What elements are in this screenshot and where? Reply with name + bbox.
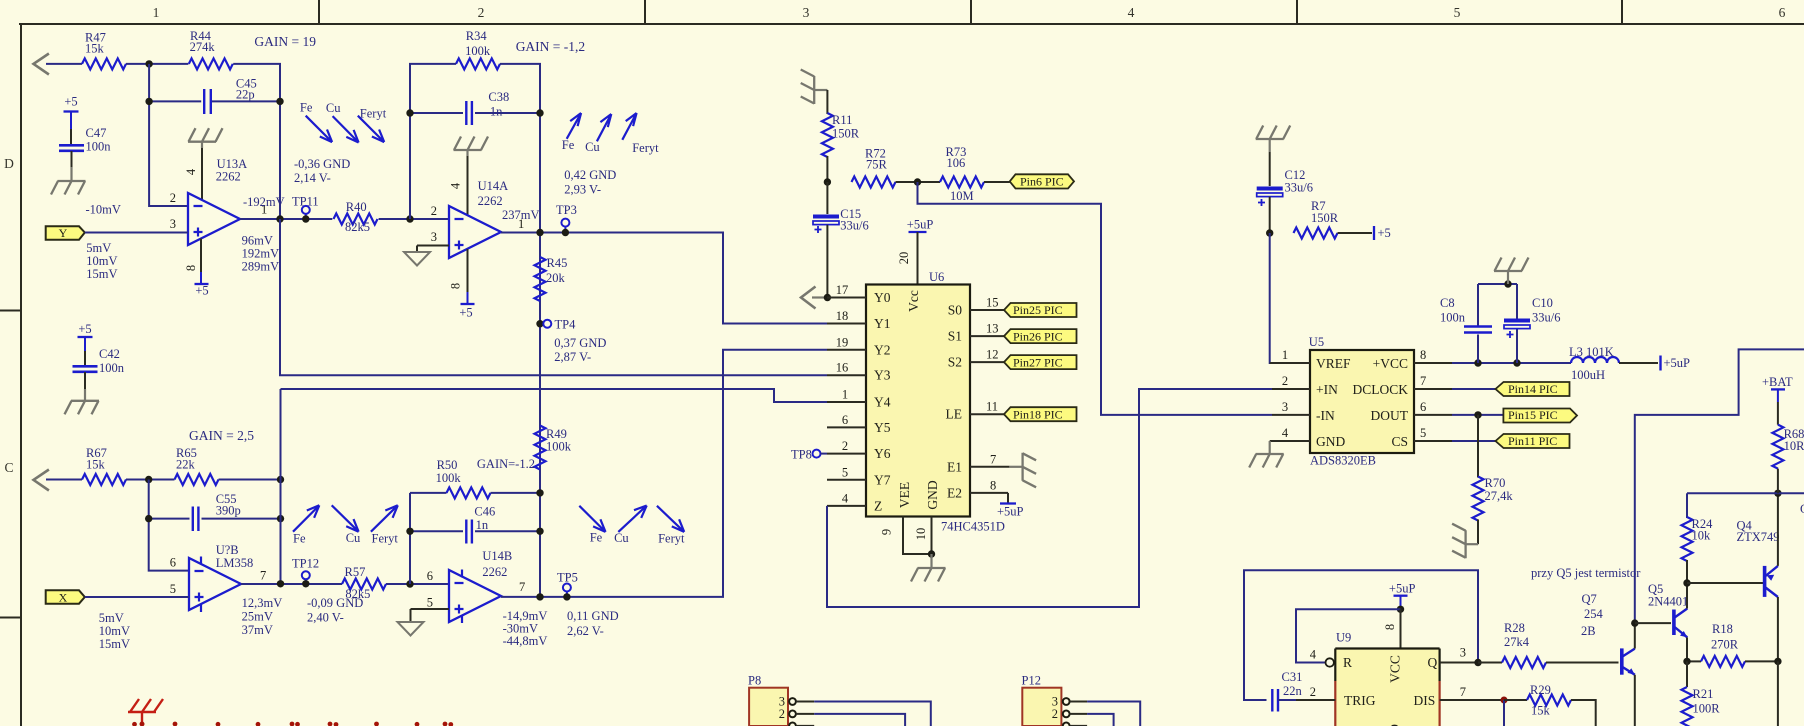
IC U9 555 body	[1335, 631, 1439, 726]
svg-text:27k4: 27k4	[1504, 635, 1530, 649]
svg-text:5: 5	[427, 596, 433, 610]
svg-text:E1: E1	[947, 459, 962, 474]
wire U13A out to Y3	[280, 219, 827, 375]
svg-text:16: 16	[836, 361, 849, 375]
text 0,37 GND 2,87 V-	[554, 336, 606, 364]
svg-text:-192mV: -192mV	[243, 195, 285, 209]
capacitor C38 1n	[410, 90, 540, 125]
wire UB output row	[241, 583, 449, 585]
node TP5	[563, 593, 570, 600]
svg-text:150R: 150R	[1311, 211, 1339, 225]
svg-text:TP4: TP4	[555, 318, 577, 332]
resistor R57 82k5	[342, 565, 386, 601]
U9 pin names	[1343, 655, 1438, 708]
svg-text:100k: 100k	[436, 471, 462, 485]
svg-text:D: D	[4, 156, 14, 171]
svg-text:15mV: 15mV	[86, 267, 117, 281]
svg-text:VEE: VEE	[897, 482, 912, 508]
svg-text:+5: +5	[459, 306, 472, 320]
sheet connector arrow Y input	[34, 54, 49, 75]
svg-text:11: 11	[986, 400, 998, 414]
node C10	[1513, 359, 1520, 366]
node Q5 emitter R18 R21	[1683, 658, 1690, 665]
wire R73 to port	[984, 181, 1010, 183]
svg-text:-0,36 GND: -0,36 GND	[294, 157, 350, 171]
ground U6 pins 9 10	[911, 568, 946, 582]
svg-text:GND: GND	[925, 480, 940, 509]
svg-text:ZTX749: ZTX749	[1737, 530, 1780, 544]
capacitor C42 100n	[73, 347, 125, 375]
arrows Fe Cu Feryt lower mid	[579, 506, 684, 532]
svg-text:C: C	[4, 460, 13, 475]
capacitor C31 22n	[1272, 670, 1302, 712]
node TP11	[302, 215, 309, 222]
svg-text:33u/6: 33u/6	[1532, 311, 1560, 325]
svg-text:5: 5	[1420, 426, 1426, 440]
power +5 C47	[64, 95, 79, 146]
wire node to -IN U5	[918, 182, 1273, 415]
svg-text:2: 2	[1052, 707, 1058, 721]
svg-text:254: 254	[1584, 607, 1604, 621]
svg-text:100R: 100R	[1693, 702, 1721, 716]
node output feedback	[276, 215, 283, 222]
svg-text:10: 10	[914, 528, 928, 541]
op-amp U13A 2262	[188, 157, 247, 245]
node R7	[1266, 229, 1273, 236]
svg-text:TP12: TP12	[292, 557, 319, 571]
text -0,09 GND 2,40 V-	[307, 596, 363, 625]
wire C47 to ground	[71, 151, 73, 181]
svg-text:8: 8	[449, 283, 463, 289]
U5 pin names right	[1352, 356, 1408, 449]
node C55 left	[145, 515, 152, 522]
svg-text:10k: 10k	[1692, 529, 1712, 543]
svg-text:7: 7	[519, 580, 525, 594]
node C46 left	[406, 528, 413, 535]
labels Fe Cu Feryt lower left	[293, 531, 398, 546]
node C45 right	[276, 98, 283, 105]
svg-text:Y3: Y3	[874, 368, 891, 383]
U6 right pin names	[946, 303, 963, 501]
svg-text:Pin18 PIC: Pin18 PIC	[1013, 407, 1063, 421]
node C45 left	[145, 98, 152, 105]
svg-text:Pin6 PIC: Pin6 PIC	[1020, 175, 1064, 189]
svg-text:+5: +5	[78, 322, 91, 336]
wire R67 to R65	[126, 479, 175, 481]
power +5uP U6	[907, 218, 934, 285]
svg-text:GAIN = -1,2: GAIN = -1,2	[516, 39, 585, 54]
text 0,42 GND 2,93 V-	[564, 168, 616, 196]
svg-text:2262: 2262	[478, 194, 503, 208]
wire bat rail	[1687, 492, 1804, 494]
svg-text:7: 7	[990, 452, 996, 466]
power +5 C42	[78, 322, 93, 366]
svg-text:Fe: Fe	[300, 101, 313, 115]
svg-text:X: X	[59, 591, 68, 605]
wire R11 to node	[826, 156, 828, 182]
svg-text:6: 6	[842, 413, 848, 427]
wire R29 right down	[1571, 700, 1596, 726]
wire U9 loop C31	[1244, 570, 1478, 700]
svg-text:Pin11 PIC: Pin11 PIC	[1508, 434, 1557, 448]
node Q5 collector Q4 base	[1683, 579, 1690, 586]
U9 pin8 stub	[1400, 609, 1402, 648]
svg-text:C8: C8	[1440, 296, 1455, 310]
node R49 bottom	[536, 593, 543, 600]
svg-text:C42: C42	[99, 347, 120, 361]
svg-text:+IN: +IN	[1316, 382, 1338, 397]
svg-text:289mV: 289mV	[242, 260, 280, 274]
wire C42 to ground	[84, 372, 86, 401]
svg-text:+5: +5	[195, 284, 208, 298]
node Q	[1474, 659, 1481, 666]
resistor R65 22k	[175, 446, 219, 485]
node R40 right U14A in	[406, 215, 413, 222]
svg-text:7: 7	[260, 569, 266, 583]
svg-text:GAIN = 19: GAIN = 19	[254, 34, 316, 49]
node R47/R44/C45	[145, 60, 152, 67]
svg-text:S0: S0	[948, 303, 963, 318]
svg-text:37mV: 37mV	[242, 623, 273, 637]
wire R47 to R44	[126, 63, 188, 65]
op-amp U14A 2262	[449, 179, 508, 258]
svg-text:VREF: VREF	[1316, 356, 1351, 371]
svg-text:U5: U5	[1309, 335, 1324, 349]
svg-text:5: 5	[1454, 5, 1461, 20]
svg-text:Y7: Y7	[874, 472, 891, 487]
ground R70	[1452, 520, 1478, 559]
ground R11 top	[801, 70, 828, 115]
svg-text:5mV: 5mV	[99, 611, 124, 625]
svg-text:390p: 390p	[216, 504, 241, 518]
svg-text:4: 4	[184, 168, 198, 175]
wire R34 loop left	[410, 64, 456, 219]
sheet connector arrow X input	[34, 470, 49, 491]
Q7 collector wire	[1634, 623, 1636, 649]
op-amp U14B 2262	[449, 549, 512, 623]
svg-text:U?B: U?B	[216, 543, 239, 557]
pin 8 stem and +5 U13A	[195, 239, 209, 298]
node R67 R65 C55	[145, 476, 152, 483]
port Pin18 PIC	[1004, 407, 1077, 421]
wire R28 to Q7	[1546, 662, 1619, 664]
node C46 right	[536, 528, 543, 535]
arrows Fe Cu Feryt upper left	[306, 116, 385, 143]
svg-text:R45: R45	[547, 256, 568, 270]
svg-text:Pin27 PIC: Pin27 PIC	[1013, 355, 1063, 369]
svg-text:Y4: Y4	[874, 395, 891, 410]
Q4 emitter wire	[1777, 493, 1779, 566]
wire R50 C46 loop	[409, 493, 411, 584]
svg-text:Cu: Cu	[585, 140, 600, 154]
svg-text:192mV: 192mV	[242, 247, 280, 261]
ground U5 pin4	[1249, 441, 1284, 468]
U6 right pin numbers	[986, 296, 999, 493]
svg-text:2: 2	[842, 439, 848, 453]
svg-text:4: 4	[842, 491, 849, 505]
resistor R40 82k5	[334, 200, 378, 234]
wire long net to Q7 collector	[1635, 349, 1804, 623]
svg-text:Q7: Q7	[1582, 592, 1597, 606]
svg-text:4: 4	[1282, 426, 1289, 440]
P8 pin1 wire	[796, 725, 814, 726]
arrows Fe Cu Feryt lower left	[293, 505, 398, 531]
svg-text:6: 6	[1420, 400, 1426, 414]
capacitor C46 1n	[410, 505, 540, 544]
U6 left pin stubs	[827, 298, 866, 506]
svg-text:74HC4351D: 74HC4351D	[941, 520, 1005, 534]
wire U14A output	[501, 233, 827, 324]
svg-text:+5uP: +5uP	[1664, 356, 1691, 370]
svg-text:+VCC: +VCC	[1373, 356, 1408, 371]
wire R72 to R73	[896, 181, 941, 183]
wire U13A output row	[240, 218, 449, 220]
wire R44 to feedback vertical	[233, 64, 280, 219]
svg-text:P8: P8	[748, 674, 761, 688]
ground C47	[51, 181, 86, 195]
svg-text:1: 1	[1282, 348, 1288, 362]
testpoint TP4	[536, 318, 576, 332]
testpoint TP8	[791, 448, 827, 462]
svg-text:15k: 15k	[85, 41, 105, 55]
svg-text:-IN: -IN	[1316, 408, 1335, 423]
svg-text:1n: 1n	[490, 105, 503, 119]
wire arrow to R67	[46, 479, 82, 481]
wire R65 right	[219, 479, 281, 481]
port Pin27 PIC	[1004, 355, 1077, 369]
svg-text:0,11 GND: 0,11 GND	[567, 609, 619, 623]
resistor R24 10k	[1682, 493, 1714, 583]
svg-text:17: 17	[836, 283, 849, 297]
resistor R67 15k	[82, 446, 126, 485]
text -0,36 GND 2,14 V-	[294, 157, 350, 185]
svg-text:GAIN=-1.2: GAIN=-1.2	[477, 457, 535, 471]
text 5mV 10mV 15mV	[86, 241, 117, 281]
U5 left pin stubs	[1270, 363, 1310, 441]
svg-text:7: 7	[1420, 374, 1426, 388]
svg-text:R57: R57	[345, 565, 366, 579]
svg-text:2N4401: 2N4401	[1648, 595, 1688, 609]
svg-text:2,62 V-: 2,62 V-	[567, 624, 604, 638]
pin 8 stem and +5 U14A	[459, 249, 474, 320]
resistor R50 100k	[410, 458, 540, 498]
ground E1	[1009, 453, 1036, 488]
resistor R11 150R	[822, 113, 860, 157]
port Pin14 PIC	[1496, 382, 1570, 396]
U9 Q stub	[1440, 662, 1478, 664]
wire to Q4 base	[1687, 582, 1765, 584]
node Q7 collector	[1631, 619, 1638, 626]
svg-text:Pin25 PIC: Pin25 PIC	[1013, 303, 1063, 317]
svg-text:10M: 10M	[950, 189, 974, 203]
svg-text:C: C	[1800, 502, 1804, 516]
power +5uP L3	[1619, 356, 1690, 371]
P12 pin3 wire	[1070, 702, 1141, 726]
svg-text:Feryt: Feryt	[632, 141, 659, 155]
svg-text:20: 20	[897, 252, 911, 265]
svg-text:0,42 GND: 0,42 GND	[564, 168, 616, 182]
svg-text:DOUT: DOUT	[1371, 408, 1409, 423]
svg-text:100k: 100k	[546, 440, 572, 454]
port Pin15 PIC	[1503, 408, 1577, 422]
svg-text:2,40 V-: 2,40 V-	[307, 611, 344, 625]
wire C15 to Y0	[826, 225, 828, 298]
wire DOUT	[1452, 414, 1503, 416]
node R11 R72 C15	[824, 178, 831, 185]
svg-text:2: 2	[1282, 374, 1288, 388]
svg-text:C47: C47	[86, 126, 107, 140]
testpoint TP11	[292, 195, 319, 220]
Q5 emitter wire	[1686, 637, 1688, 661]
U6 pins 9 10	[903, 517, 935, 569]
text 96mV 192mV 289mV	[242, 234, 280, 274]
svg-text:1: 1	[153, 5, 160, 20]
node feedback R65	[277, 476, 284, 483]
node R50 right	[536, 489, 543, 496]
svg-text:3: 3	[431, 230, 437, 244]
node TP3	[562, 229, 569, 236]
svg-text:TP11: TP11	[292, 195, 319, 209]
P8 pin circles	[789, 698, 796, 726]
P12 pin2 wire	[1070, 714, 1114, 726]
port Y	[46, 226, 85, 240]
ground U13A pin4	[188, 128, 223, 200]
svg-text:Vcc: Vcc	[906, 290, 921, 312]
wire R to VCC loop	[1296, 609, 1401, 662]
U5 pin names left	[1316, 356, 1351, 449]
power +5uP E2	[997, 493, 1024, 519]
svg-text:LM358: LM358	[216, 556, 254, 570]
svg-text:2B: 2B	[1581, 624, 1596, 638]
svg-text:Fe: Fe	[590, 530, 603, 544]
svg-text:22k: 22k	[176, 458, 196, 472]
svg-text:C31: C31	[1282, 670, 1303, 684]
node DOUT R70	[1474, 411, 1481, 418]
node Y0	[824, 294, 831, 301]
svg-text:VCC: VCC	[1388, 655, 1403, 683]
svg-text:R11: R11	[832, 113, 852, 127]
wire inverting vertical UB	[149, 480, 189, 571]
wire pin3 ground	[417, 246, 449, 253]
svg-text:ADS8320EB: ADS8320EB	[1310, 454, 1376, 468]
svg-text:106: 106	[947, 156, 966, 170]
svg-text:R21: R21	[1693, 687, 1714, 701]
ground C42	[65, 401, 100, 415]
node C38 right	[536, 109, 543, 116]
svg-text:237mV: 237mV	[502, 208, 540, 222]
svg-text:S2: S2	[948, 355, 962, 370]
Q4 collector wire	[1777, 597, 1779, 661]
svg-text:GND: GND	[1316, 434, 1345, 449]
wire Y to pin3	[85, 232, 188, 234]
svg-text:C46: C46	[474, 505, 495, 519]
resistor R72 75R	[852, 147, 896, 188]
svg-text:Q: Q	[1428, 655, 1438, 670]
svg-text:R50: R50	[437, 458, 458, 472]
resistor R70 27,4k	[1473, 415, 1514, 521]
IC U6 74HC4351D body	[866, 270, 1005, 534]
resistor R34 100k	[456, 29, 500, 69]
node R18 right	[1774, 658, 1781, 665]
svg-text:S1: S1	[948, 329, 962, 344]
node C55 right	[277, 515, 284, 522]
svg-text:274k: 274k	[190, 40, 216, 54]
connector P12	[1022, 674, 1062, 726]
text X mV	[99, 611, 130, 651]
svg-text:Feryt: Feryt	[372, 532, 399, 546]
IC U5 ADS8320EB body	[1309, 335, 1414, 468]
power +BAT	[1762, 375, 1793, 402]
transistor Q7 254 2B	[1581, 592, 1635, 675]
node C8	[1474, 359, 1481, 366]
labels Fe Cu Feryt upper left	[300, 101, 387, 121]
svg-text:Pin15 PIC: Pin15 PIC	[1508, 408, 1558, 422]
svg-text:TP8: TP8	[791, 448, 812, 462]
svg-text:1n: 1n	[476, 518, 489, 532]
P8 pin numbers	[779, 695, 785, 722]
resistor R73 106	[940, 145, 984, 188]
svg-text:2262: 2262	[216, 169, 241, 183]
svg-text:8: 8	[1383, 624, 1397, 630]
svg-text:C38: C38	[488, 90, 509, 104]
transistor Q4 ZTX749	[1737, 519, 1780, 598]
port Pin11 PIC	[1496, 434, 1570, 448]
U5 right pin stubs	[1414, 363, 1452, 441]
svg-text:2: 2	[478, 5, 485, 20]
svg-text:R34: R34	[466, 29, 488, 43]
svg-text:P12: P12	[1022, 674, 1041, 688]
svg-text:10R: 10R	[1784, 439, 1804, 453]
svg-text:U14B: U14B	[482, 549, 512, 563]
svg-text:Y6: Y6	[874, 446, 891, 461]
svg-text:15k: 15k	[86, 458, 106, 472]
wire pin5 ground U14B	[411, 609, 450, 622]
wire +VCC row	[1452, 362, 1571, 364]
P12 pin1 wire	[1070, 725, 1088, 726]
node R72 R73	[914, 178, 921, 185]
resistor R21 100R	[1682, 661, 1721, 726]
resistor R49 100k	[535, 426, 572, 470]
text 12,3mV 25mV 37mV	[242, 596, 283, 637]
svg-text:TP3: TP3	[556, 203, 577, 217]
capacitor C45 22p	[149, 77, 280, 115]
wire X to pin5	[85, 596, 189, 598]
svg-text:25mV: 25mV	[242, 610, 273, 624]
svg-text:R70: R70	[1485, 476, 1506, 490]
svg-text:GAIN = 2,5: GAIN = 2,5	[189, 428, 254, 443]
svg-text:2: 2	[431, 204, 437, 218]
svg-text:Pin14 PIC: Pin14 PIC	[1508, 382, 1558, 396]
labels Fe Cu Feryt upper right	[562, 138, 659, 155]
P8 pin2 wire	[796, 714, 905, 726]
svg-text:33u/6: 33u/6	[1285, 181, 1313, 195]
svg-text:R: R	[1343, 655, 1352, 670]
resistor R7 150R	[1294, 199, 1339, 239]
wire Z to +IN U5	[827, 389, 1272, 607]
svg-text:-44,8mV: -44,8mV	[503, 634, 548, 648]
svg-text:22p: 22p	[236, 87, 255, 101]
svg-text:U14A: U14A	[478, 179, 509, 193]
svg-text:R29: R29	[1530, 683, 1551, 697]
port Pin6 PIC	[1010, 174, 1074, 188]
capacitor C15 33u/6	[813, 182, 869, 233]
node DIS red	[1501, 697, 1508, 704]
svg-text:DIS: DIS	[1414, 693, 1436, 708]
svg-text:100k: 100k	[465, 44, 491, 58]
Q7 emitter wire	[1634, 675, 1636, 726]
wire UB out to Y4	[281, 389, 828, 402]
svg-text:2: 2	[1310, 685, 1316, 699]
